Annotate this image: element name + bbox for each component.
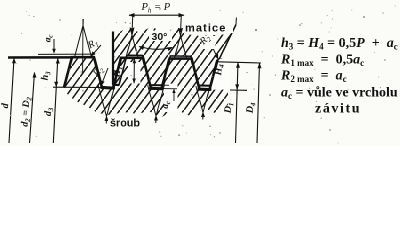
svg-text:h3 = H4 = 0,5P + ac: h3 = H4 = 0,5P + ac [281,36,398,52]
svg-text:Ph = P: Ph = P [141,2,171,15]
svg-text:matice: matice [185,23,226,35]
svg-text:d2 = D2: d2 = D2 [19,96,33,127]
svg-text:závitu: závitu [315,102,361,117]
svg-text:30°: 30° [152,31,168,43]
svg-text:šroub: šroub [110,118,140,130]
svg-text:R2 max = ac: R2 max = ac [280,69,347,85]
